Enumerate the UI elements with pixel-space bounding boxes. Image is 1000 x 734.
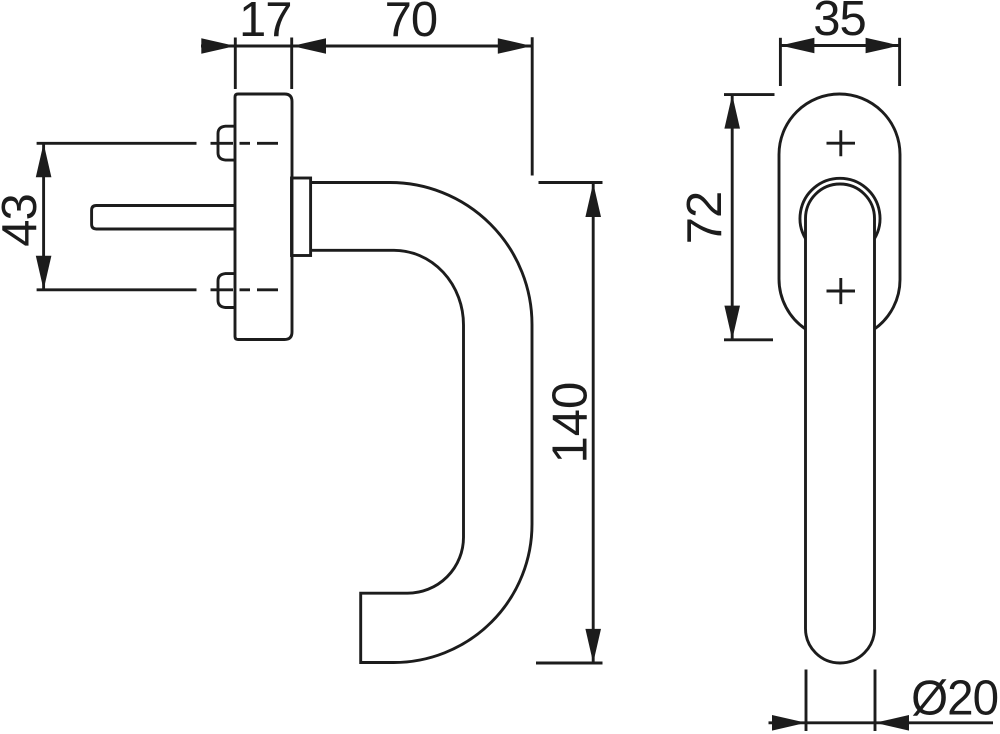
dimension 17/70 line (201, 45, 532, 48)
rosette oval (front view, interrupted by grip) (779, 94, 900, 329)
extension line O20 left (805, 670, 808, 732)
arrow 72 bottom (pointing down) (724, 306, 740, 340)
arrow O20 right (outside, pointing left) (875, 715, 909, 731)
arrow 43 bottom (pointing down) (36, 256, 52, 290)
extension line 70 right (531, 37, 534, 175)
svg-text:70: 70 (385, 0, 438, 47)
arrow 35 left (pointing left) (780, 38, 814, 54)
dimension O20 line (769, 721, 994, 724)
boss outer arc (front view) (800, 178, 880, 238)
dimension 43 line (42, 143, 45, 289)
dimension 35 line (780, 44, 899, 47)
extension line 17 left (234, 38, 237, 90)
dimension 72 line (731, 95, 734, 340)
svg-text:Ø20: Ø20 (911, 671, 998, 726)
extension line 140 bottom (536, 662, 603, 665)
center line top screw (dashes) (211, 142, 279, 145)
screw head top (side view) (218, 126, 236, 160)
svg-text:140: 140 (544, 382, 598, 464)
extension line 72 bottom (724, 338, 773, 341)
screw cross mark bottom (front view) (827, 278, 856, 304)
center line bottom screw (dashes) (211, 288, 279, 291)
svg-text:35: 35 (813, 0, 866, 46)
arrow 43 top (pointing up) (36, 143, 52, 177)
plate (rosette side view) (235, 94, 292, 340)
arrow 70 right (pointing right) (498, 38, 532, 54)
svg-text:17: 17 (239, 0, 292, 47)
svg-text:72: 72 (678, 192, 732, 245)
svg-text:43: 43 (0, 194, 47, 247)
arrow O20 left (outside, pointing right) (772, 715, 806, 731)
handle outline (side view) (311, 183, 532, 663)
extension line 17 right (290, 38, 293, 90)
center line top screw (solid extension part) (37, 142, 197, 145)
dimension 140 line (592, 183, 595, 663)
arrow 70 left (pointing left) (292, 38, 326, 54)
arrow 140 top (pointing up) (585, 183, 601, 217)
screw head bottom (side view) (218, 274, 236, 308)
screw cross mark top (front view) (827, 130, 856, 156)
extension line O20 right (874, 670, 877, 732)
collar (neck ferrule) (292, 178, 311, 256)
arrow 35 right (pointing right) (866, 38, 900, 54)
extension line 35 right (898, 38, 901, 86)
arrow 17 left (outside, pointing right) (201, 38, 235, 54)
grip bar with inner neck arc and rounded end (front view) (806, 184, 875, 663)
extension line 35 left (779, 38, 782, 86)
extension line 140 top (539, 181, 603, 184)
extension line 72 top (724, 93, 775, 96)
arrow 72 top (pointing up) (724, 95, 740, 129)
arrow 140 bottom (pointing down) (585, 629, 601, 663)
center line bottom screw (solid extension part) (37, 288, 197, 291)
spindle (square shaft) (92, 206, 236, 230)
